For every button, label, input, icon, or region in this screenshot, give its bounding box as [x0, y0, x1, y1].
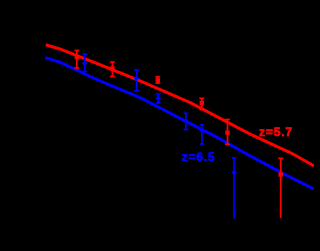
- red data point R6 upper point, error bar extends to bottom axis: [278, 158, 283, 218]
- blue curve (z=6.5 luminosity function fit): [45, 58, 314, 189]
- red data point R3 with error bar: [155, 77, 160, 83]
- red data point R1 with error bar: [74, 51, 79, 69]
- blue data point B1 with error bar: [82, 54, 88, 71]
- blue data point B2 with error bar: [134, 70, 140, 91]
- red curve (z=5.7 luminosity function fit): [46, 45, 314, 166]
- blue data point B4 with error bar: [183, 113, 189, 129]
- blue data point B5 with error bar: [199, 125, 205, 144]
- svg-text:z=5.7: z=5.7: [259, 125, 293, 139]
- blue data point B6 upper point, error bar extends to bottom axis: [231, 158, 237, 219]
- red data point R4 with error bar: [199, 98, 204, 109]
- red data point R2 with error bar: [110, 62, 115, 76]
- svg-text:z=6.5: z=6.5: [182, 150, 216, 164]
- red data point R5 with error bar: [225, 120, 230, 145]
- blue data point B3 with error bar: [155, 94, 161, 103]
